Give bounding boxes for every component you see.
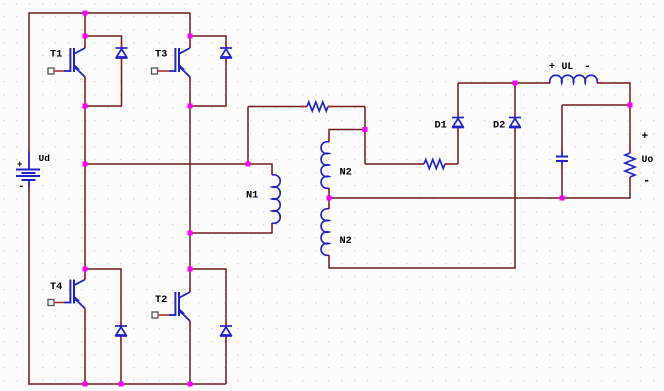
resistor R1 (primary series) — [307, 102, 328, 111]
wire T3 top drop — [189, 13, 191, 36]
node N1 top — [246, 162, 251, 167]
resistor R2 (secondary series) — [424, 160, 445, 169]
transistor T4 — [64, 280, 85, 309]
wire x=365 drop — [364, 107, 366, 165]
svg-text:Ud: Ud — [39, 153, 51, 164]
wire bottom rail — [28, 383, 226, 385]
wire capacitor top link — [562, 104, 630, 106]
svg-text:D1: D1 — [435, 120, 447, 132]
diode across T1 — [116, 48, 128, 58]
gate terminal T1 — [48, 68, 54, 74]
svg-text:Uo: Uo — [642, 154, 654, 165]
wire T4 collector stub — [84, 269, 86, 280]
wire T4 emitter — [84, 309, 86, 385]
wire T1 collector stub — [84, 36, 86, 48]
svg-text:+: + — [17, 160, 22, 170]
wire T2 gate stub — [156, 314, 169, 316]
node T4 diode bottom — [119, 382, 124, 387]
wire top rail — [29, 12, 190, 14]
svg-text:T4: T4 — [50, 281, 62, 293]
node N1 bottom junction — [188, 231, 193, 236]
winding N1 — [272, 175, 280, 224]
wire T1 gate stub — [52, 70, 64, 72]
diode across T2 — [220, 326, 232, 336]
battery Vd — [16, 152, 40, 187]
winding N2 lower — [321, 209, 329, 256]
wire T4 diode branch top — [85, 269, 121, 326]
node capacitor bottom — [560, 196, 565, 201]
svg-text:N1: N1 — [246, 190, 258, 202]
svg-text:+: + — [642, 131, 649, 143]
node T4 collector — [83, 267, 88, 272]
node top rail x=85 — [83, 11, 88, 16]
wire T3 diode branch bottom — [190, 58, 226, 106]
wire T1 top drop — [84, 13, 86, 36]
wire x=190 middle — [189, 106, 191, 269]
node mid left — [83, 162, 88, 167]
wire T4 gate stub — [52, 302, 64, 304]
gate terminal T4 — [48, 300, 54, 306]
svg-text:T1: T1 — [50, 49, 62, 61]
wire capacitor bottom lead — [561, 165, 563, 199]
wire T3 diode branch top — [190, 36, 226, 48]
winding N2 upper — [321, 142, 329, 189]
diode D1 — [452, 118, 464, 128]
wire T1 diode branch bottom — [85, 58, 122, 106]
node T2 collector — [188, 267, 193, 272]
wire load top lead — [629, 105, 631, 153]
transistor T2 — [169, 292, 190, 321]
resistor load Uo — [625, 153, 635, 177]
svg-text:D2: D2 — [493, 120, 505, 132]
wire D1 anode lead — [457, 128, 459, 165]
wire T3 gate stub — [156, 70, 170, 72]
wire R1 left lead — [248, 106, 307, 108]
svg-text:UL: UL — [562, 61, 574, 72]
wire T3 emitter — [189, 77, 191, 106]
node T3 emitter — [188, 104, 193, 109]
svg-text:N2: N2 — [340, 167, 352, 179]
wire T2 collector stub — [189, 269, 191, 292]
wire T4 diode branch bottom — [120, 337, 122, 385]
wire mid link — [85, 163, 248, 165]
node T3 collector — [188, 34, 193, 39]
svg-text:+: + — [549, 62, 555, 73]
wire output bottom rail — [329, 197, 630, 199]
wire R1 right lead — [328, 106, 365, 108]
wire left rail lower — [28, 187, 30, 385]
svg-text:-: - — [584, 61, 591, 73]
node x=365 — [363, 127, 368, 132]
wire R2 left lead — [365, 163, 424, 165]
wire D2 cathode lead — [514, 83, 516, 118]
node T1 collector — [83, 34, 88, 39]
node D2 cathode — [513, 81, 518, 86]
wire VL right lead — [597, 83, 630, 105]
transistor T1 — [64, 48, 85, 77]
wire N2 lower top lead — [328, 198, 330, 209]
wire T2 diode branch bottom — [225, 337, 227, 385]
wire N2 upper top link — [329, 130, 365, 143]
diode D2 — [509, 118, 521, 128]
wire N1 bottom link — [190, 223, 272, 233]
wire T2 emitter — [189, 321, 191, 384]
wire R2 right lead — [445, 163, 458, 165]
diode across T4 — [115, 326, 127, 336]
wire component pin stubs — [29, 43, 630, 342]
wire T1 emitter — [84, 77, 86, 106]
svg-text:T2: T2 — [155, 294, 167, 306]
node load top — [628, 103, 633, 108]
wire riser to R rail — [247, 107, 249, 165]
capacitor C — [556, 152, 568, 165]
svg-text:-: - — [18, 181, 25, 193]
wire N2 upper bottom lead — [328, 188, 330, 198]
wire D1 cathode lead — [457, 83, 459, 118]
wire capacitor top lead — [561, 105, 563, 152]
wire N2 lower bottom to D2 anode — [329, 128, 515, 269]
node T4 emitter bottom — [83, 382, 88, 387]
node transformer centre tap — [327, 196, 332, 201]
transistor T3 — [169, 48, 190, 77]
wire x=85 middle — [84, 106, 86, 269]
svg-text:N2: N2 — [340, 235, 352, 247]
wire T2 diode branch top — [190, 269, 226, 326]
svg-text:-: - — [643, 174, 650, 188]
node T2 emitter bottom — [188, 382, 193, 387]
svg-text:T3: T3 — [155, 49, 167, 61]
gate terminal T3 — [152, 68, 158, 74]
node T1 emitter — [83, 104, 88, 109]
gate terminal T2 — [152, 312, 158, 318]
wire left rail upper — [28, 12, 30, 152]
wire N1 top link — [248, 164, 272, 175]
wire T3 collector stub — [189, 36, 191, 48]
wire T1 diode branch top — [85, 36, 122, 48]
inductor L (UL) — [550, 75, 597, 83]
wire cathode rail — [458, 82, 550, 84]
wire load bottom lead — [629, 177, 631, 199]
diode across T3 — [220, 48, 232, 58]
